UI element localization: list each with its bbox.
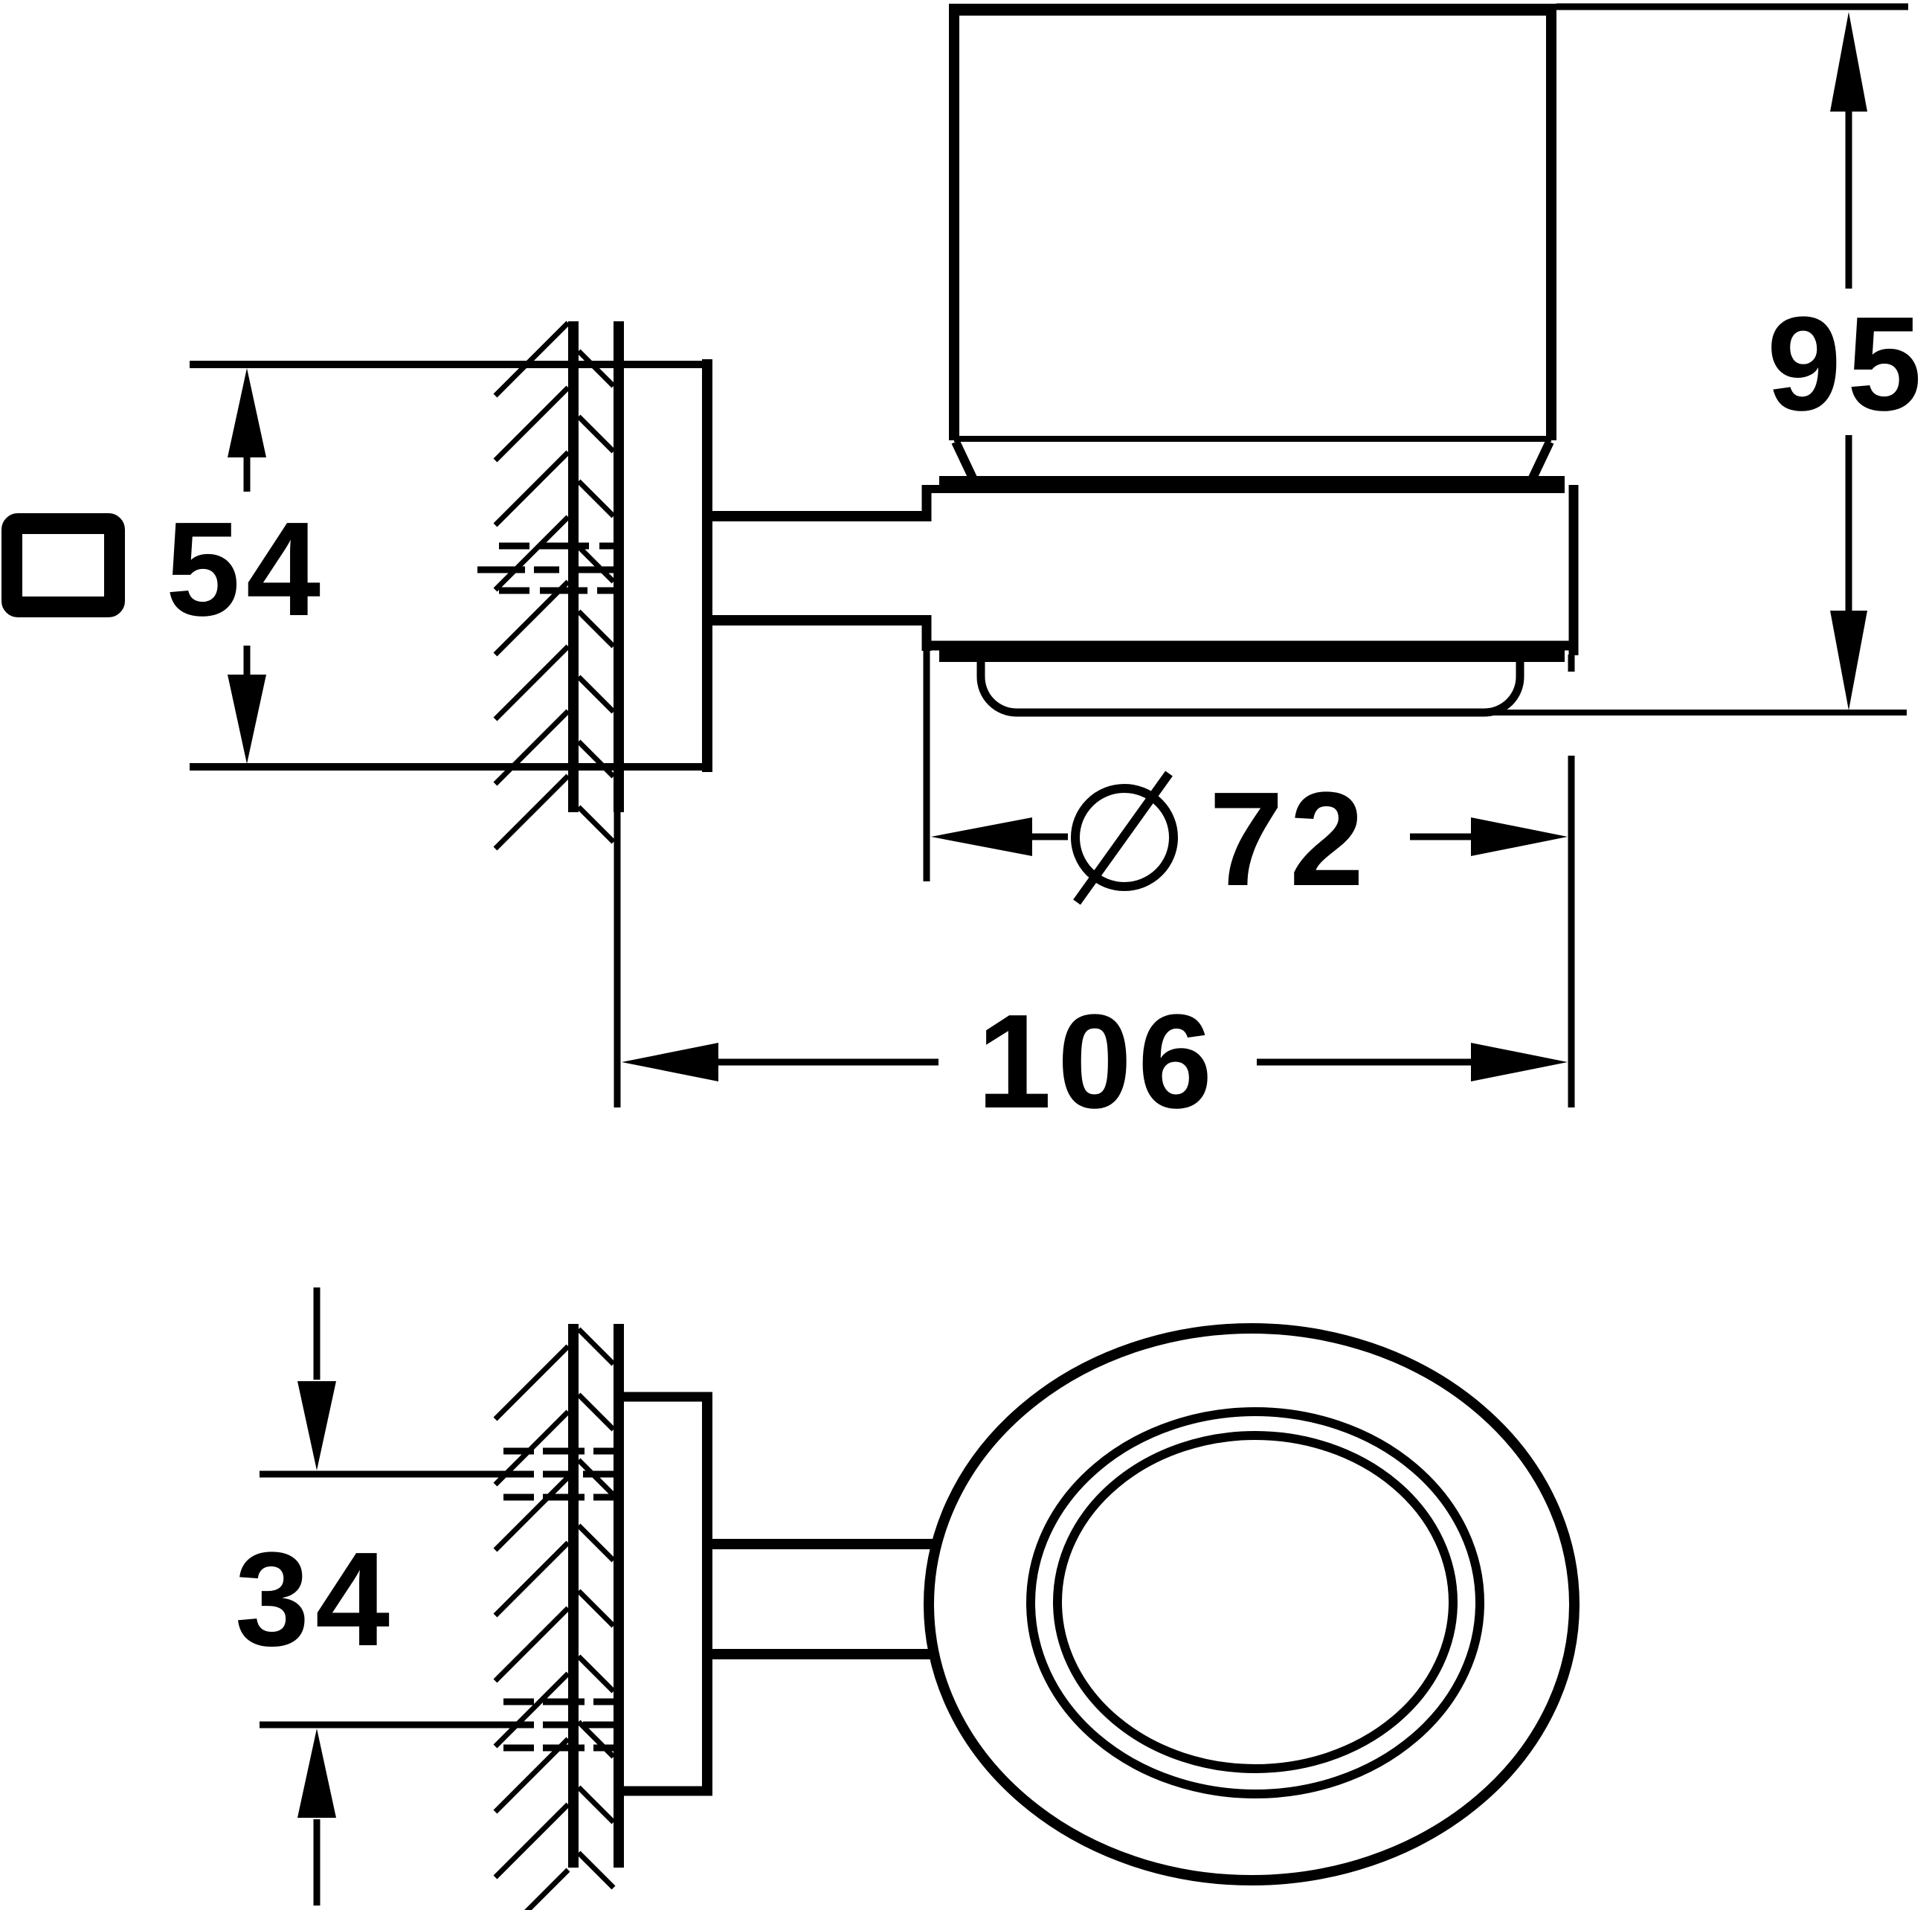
wall hatching (plan view) (495, 1329, 614, 1910)
holder arm (plan view) (712, 1544, 974, 1654)
wall line 2 / tile (plan view) (614, 1324, 624, 1868)
holder arm (side view) (712, 516, 924, 620)
wall plate (side view) (190, 359, 712, 772)
mounting hole hidden lines (plan view) (503, 1451, 624, 1748)
wall plate (plan view) (619, 1392, 712, 1795)
square symbol for dim 54 (12, 524, 115, 607)
dish bottom / dim 95 lower extension line (1017, 710, 1907, 716)
mounting hole hidden lines (side view) (477, 546, 624, 591)
glass bottom dish (side view) (981, 659, 1520, 713)
holder ring outer edge (plan view) (929, 1328, 1574, 1880)
svg-text:72: 72 (1209, 765, 1370, 914)
dimension 34 (235, 1287, 534, 1906)
wall hatching (side view) (495, 323, 614, 849)
glass tumbler (side view) (949, 4, 1556, 484)
wall line 1 (side view) (568, 321, 579, 812)
dimension 106 (617, 812, 1568, 1136)
svg-text:95: 95 (1767, 289, 1928, 439)
wall line 1 (plan view) (568, 1324, 579, 1868)
glass seat edge (plan view) (1057, 1435, 1453, 1769)
wall line 2 / tile (side view) (614, 321, 624, 812)
svg-text:34: 34 (235, 1525, 396, 1674)
dim 95 upper extension line (1556, 4, 1908, 10)
svg-text:106: 106 (977, 987, 1218, 1136)
dimension diameter 72 (927, 651, 1571, 1107)
dimension 54 (166, 368, 326, 764)
holder ring inner edge (plan view) (1031, 1412, 1480, 1794)
dimension 95 (1767, 12, 1928, 710)
holder ring (side view) (922, 476, 1578, 662)
svg-text:54: 54 (166, 495, 326, 644)
